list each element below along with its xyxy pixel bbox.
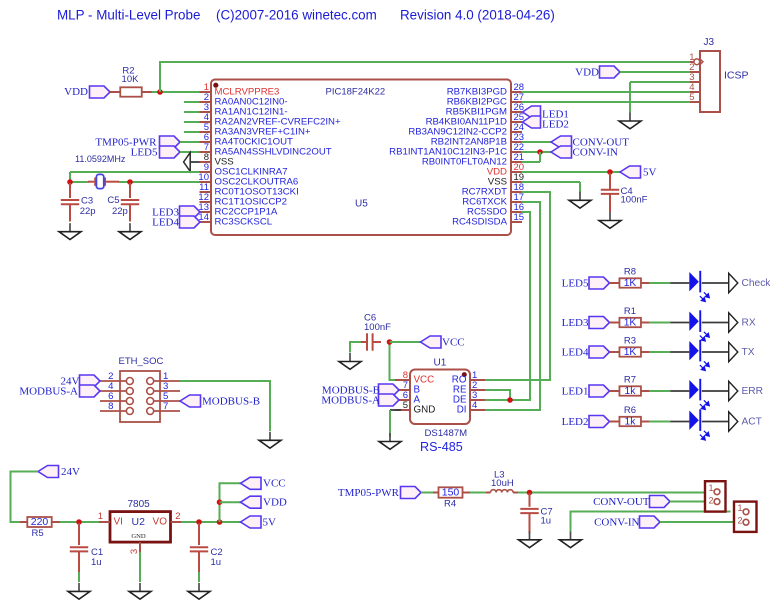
svg-text:LED4: LED4 — [152, 216, 179, 228]
svg-text:MODBUS-A: MODBUS-A — [19, 385, 78, 397]
wire VDD to J3 pin2 — [620, 71, 690, 73]
wire VDD branch — [220, 501, 241, 503]
wire J3 pin3 down — [629, 82, 631, 113]
connector CONV-IN header body — [734, 502, 757, 532]
svg-text:1k: 1k — [625, 416, 637, 427]
wire C5 top lead — [129, 183, 131, 198]
svg-text:10uH: 10uH — [491, 478, 514, 489]
svg-text:1: 1 — [737, 503, 742, 513]
flag LED1 at pin26 — [523, 106, 541, 118]
resistor R4 — [439, 487, 463, 497]
svg-text:100nF: 100nF — [364, 322, 391, 333]
flag MODBUS-A at ETH_SOC — [80, 385, 101, 397]
U5 pin 12 stub — [200, 201, 212, 203]
flag LED4 led row — [589, 346, 610, 358]
wire TMP05 to R4 — [421, 492, 433, 494]
wire R1 right lead — [641, 322, 650, 324]
svg-text:VCC: VCC — [263, 478, 286, 490]
U5 pin 5 stub — [200, 131, 212, 133]
IC U5 PIC18F24K22 body — [211, 80, 511, 236]
LED D-ERR cathode bar — [699, 379, 701, 401]
svg-text:R7: R7 — [624, 375, 636, 386]
capacitor C1 — [70, 547, 88, 551]
svg-text:1u: 1u — [541, 516, 552, 527]
wire U2 pin3 down — [139, 552, 141, 582]
wire CONV-OUT to header — [670, 501, 714, 503]
svg-text:MLP - Multi-Level Probe: MLP - Multi-Level Probe — [57, 7, 200, 22]
ETH_SOC pin 5 stub — [154, 400, 180, 402]
flag 5V — [241, 516, 262, 528]
ETH_SOC pin 6 circle — [126, 398, 133, 405]
wire U1 GND — [390, 409, 401, 411]
wire C6 to ground — [350, 342, 361, 353]
wire crystal left — [70, 181, 89, 183]
svg-text:7: 7 — [163, 401, 168, 412]
regulator U2 7805 body — [110, 512, 171, 542]
wire CONV ground net — [571, 512, 731, 532]
svg-text:R5: R5 — [32, 528, 44, 539]
J3 pin 2 stub — [690, 71, 700, 73]
U5 pin 18 stub — [511, 191, 522, 193]
wire R2 right lead — [142, 91, 152, 93]
flag CONV-OUT source — [650, 496, 671, 508]
offpage arrow ACT — [729, 412, 738, 431]
LED D-Check cathode bar — [699, 271, 701, 293]
svg-text:RX: RX — [742, 317, 756, 328]
CONV-OUT header pin1 circle — [714, 489, 720, 495]
wire stub pin 3 — [184, 111, 200, 113]
flag MODBUS-A at U1 — [379, 394, 400, 406]
wire L3 left lead — [486, 492, 491, 494]
svg-text:VO: VO — [153, 517, 168, 528]
IC U1 DS1487M body — [410, 370, 470, 425]
wire LED anode ERR — [670, 390, 689, 392]
flag LED1 led row — [589, 385, 610, 397]
svg-text:R4: R4 — [444, 499, 456, 510]
wire R5 right lead — [52, 521, 60, 523]
wire R6 to LED — [650, 421, 670, 423]
LED D-ERR triangle — [689, 380, 699, 399]
svg-text:3: 3 — [129, 549, 140, 554]
LED D-TX cathode bar — [699, 340, 701, 362]
wire stub pin 5 — [184, 131, 200, 133]
U1 pin 8 stub — [395, 379, 410, 381]
U5 pin 19 stub — [511, 181, 522, 183]
flag LED2 at pin25 — [523, 116, 541, 128]
ground C3 — [59, 223, 81, 239]
wire U1 GND down — [389, 410, 391, 437]
ETH_SOC pin 8 circle — [126, 408, 133, 415]
svg-text:CONV-OUT: CONV-OUT — [593, 496, 650, 508]
U5 pin 2 stub — [200, 101, 212, 103]
U1 pin 4 stub — [470, 409, 485, 411]
svg-text:PIC18F24K22: PIC18F24K22 — [326, 87, 386, 98]
wire L3 right lead — [513, 492, 518, 494]
svg-text:U5: U5 — [355, 199, 368, 210]
U5 pin 24 stub — [511, 131, 522, 133]
ETH_SOC pin 5 circle — [147, 398, 154, 405]
wire ETH pin1 to ground — [180, 381, 270, 431]
wire PGC pin27 to J3 pin5 — [522, 101, 691, 103]
node RE-DE junction — [507, 397, 513, 403]
wire VSS pin19 — [522, 181, 581, 183]
flag TMP05-PWR source — [401, 487, 422, 499]
capacitor C3 — [61, 200, 79, 204]
wire PGD pin28 to J3 pin4 — [522, 91, 691, 93]
svg-text:LED2: LED2 — [542, 118, 569, 130]
svg-text:8: 8 — [108, 401, 113, 412]
node XTAL1 — [67, 179, 73, 185]
wire R3 left lead — [610, 351, 620, 353]
node 5V branch — [217, 519, 223, 525]
svg-text:220: 220 — [31, 516, 49, 528]
LED D-RX arrows — [700, 332, 709, 341]
wire TMP05-PWR to pin6 — [180, 141, 200, 143]
flag LED5 led row — [589, 277, 610, 289]
U5 pin 6 stub — [200, 141, 212, 143]
wire OSC1 — [70, 171, 200, 173]
wire R1 left lead — [610, 322, 620, 324]
wire stub pin 4 — [184, 121, 200, 123]
wire LED anode Check — [670, 282, 689, 284]
wire VDD pin20 — [522, 171, 621, 173]
svg-text:R3: R3 — [624, 336, 636, 347]
wire R7 left lead — [610, 390, 620, 392]
svg-text:GND: GND — [414, 405, 436, 416]
J3 pin 1 stub — [690, 61, 700, 63]
wire L3 to header — [518, 492, 714, 494]
wire R5 to U2 — [60, 521, 99, 523]
U5 pin 9 stub — [200, 171, 212, 173]
LED D-ERR arrows — [700, 400, 709, 409]
wire VSS pin8 — [190, 161, 199, 163]
ground CONV — [560, 531, 582, 547]
LED D-ACT arrows — [700, 431, 709, 440]
svg-text:C5: C5 — [107, 195, 119, 206]
resistor R1 — [619, 318, 641, 327]
ground ICSP — [619, 113, 641, 129]
svg-text:GND: GND — [131, 533, 146, 540]
svg-text:4: 4 — [472, 400, 477, 411]
LED D-Check arrows — [700, 292, 709, 301]
svg-text:LED1: LED1 — [562, 385, 589, 397]
wire C1 bottom lead — [78, 552, 80, 573]
svg-text:24V: 24V — [61, 466, 80, 478]
connector CONV-OUT header body — [705, 481, 726, 511]
svg-text:ICSP: ICSP — [724, 70, 749, 82]
svg-text:RC3SCKSCL: RC3SCKSCL — [215, 217, 273, 228]
svg-text:R1: R1 — [624, 306, 636, 317]
wire R8 right lead — [641, 282, 650, 284]
svg-text:MODBUS-B: MODBUS-B — [202, 395, 260, 407]
U1 pin 5 stub — [395, 409, 410, 411]
LED D-Check triangle — [689, 272, 699, 291]
wire LED anode RX — [670, 322, 689, 324]
ground ETH_SOC — [259, 432, 281, 448]
wire RC6TXCK to DI — [485, 202, 540, 410]
svg-text:VDD: VDD — [64, 86, 88, 98]
svg-text:ACT: ACT — [742, 416, 762, 427]
wire R5 left lead — [20, 521, 27, 523]
flag 5V at pin20 — [620, 166, 641, 178]
wire R7 to LED — [650, 390, 670, 392]
svg-text:VI: VI — [114, 517, 123, 528]
wire C5 bottom lead — [129, 204, 131, 221]
ground C7 — [519, 531, 541, 547]
wire C3 bottom lead — [69, 204, 71, 221]
svg-text:1K: 1K — [624, 278, 637, 289]
U1 pin 3 stub — [470, 399, 485, 401]
U5 pin 20 stub — [511, 171, 522, 173]
wire LED cathode ACT — [702, 421, 729, 423]
wire C6 left lead — [361, 341, 367, 343]
svg-text:150: 150 — [442, 487, 460, 499]
U2 pin 1 stub — [99, 521, 110, 523]
node C2 junction — [196, 519, 202, 525]
U5 pin 10 stub — [200, 181, 212, 183]
svg-text:CONV-IN: CONV-IN — [573, 146, 618, 158]
svg-text:CONV-IN: CONV-IN — [594, 516, 639, 528]
ground C2 — [188, 583, 210, 599]
flag LED3 led row — [589, 317, 610, 329]
U5 pin 17 stub — [511, 201, 522, 203]
wire C2 ground — [198, 572, 200, 582]
U5 pin 25 stub — [511, 121, 522, 123]
flag 24V at regulator — [38, 466, 59, 478]
ground VSS arrow — [184, 153, 191, 172]
svg-text:15: 15 — [514, 212, 525, 223]
svg-text:R6: R6 — [624, 405, 636, 416]
LED D-TX arrows — [700, 361, 709, 370]
wire C1 ground — [78, 572, 80, 582]
ground C1 — [68, 583, 90, 599]
svg-text:1: 1 — [98, 511, 103, 522]
wire LED cathode RX — [702, 322, 729, 324]
wire C6 right lead — [373, 341, 381, 343]
svg-text:22p: 22p — [80, 206, 96, 217]
svg-text:1K: 1K — [624, 317, 637, 328]
wire C2 top lead — [198, 523, 200, 545]
svg-text:DI: DI — [457, 405, 467, 416]
wire R7 right lead — [641, 390, 650, 392]
flag VDD — [241, 496, 262, 508]
LED D-ACT cathode bar — [699, 409, 701, 431]
wire R1 to LED — [650, 322, 670, 324]
U5 pin 23 stub — [511, 141, 522, 143]
U5 pin-1 mark — [213, 83, 218, 88]
LED D-RX cathode bar — [699, 310, 701, 332]
wire VSS pin19 down — [579, 182, 581, 193]
CONV-OUT header pin2 circle — [714, 499, 720, 505]
U5 pin 7 stub — [200, 151, 212, 153]
svg-text:MODBUS-A: MODBUS-A — [321, 394, 380, 406]
svg-text:5V: 5V — [643, 166, 657, 178]
wire pin21 up — [539, 152, 541, 162]
ETH_SOC pin 8 stub — [100, 410, 126, 412]
wire CONV-IN to header — [660, 521, 743, 523]
svg-text:LED4: LED4 — [562, 346, 589, 358]
U5 pin 16 stub — [511, 211, 522, 213]
wire stub pin 2 — [184, 101, 200, 103]
node MCLR junction — [157, 89, 163, 95]
node VDD branch — [217, 499, 223, 505]
resistor R8 — [619, 278, 641, 287]
U5 pin 3 stub — [200, 111, 212, 113]
svg-text:VDD: VDD — [263, 497, 287, 509]
resistor R2 — [120, 87, 142, 96]
connector J3 body — [700, 51, 720, 112]
resistor R5 — [27, 517, 51, 527]
crystal Q1 plates — [88, 178, 119, 186]
ground C4 — [599, 212, 621, 228]
ground C5 — [119, 223, 141, 239]
wire R3 to LED — [650, 351, 670, 353]
wire RE join — [485, 390, 510, 400]
resistor R3 — [619, 347, 641, 356]
U5 pin 13 stub — [200, 211, 212, 213]
offpage arrow ERR — [729, 381, 738, 400]
ETH_SOC pin 4 stub — [100, 390, 126, 392]
U5 pin 4 stub — [200, 121, 212, 123]
CONV-IN header pin1 circle — [743, 509, 749, 515]
capacitor C4 — [601, 190, 619, 194]
J3 pin 4 stub — [690, 91, 700, 93]
svg-text:ETH_SOC: ETH_SOC — [119, 356, 164, 367]
wire LED5 to pin7 — [180, 151, 200, 153]
wire VCC branch — [220, 483, 241, 522]
svg-text:VCC: VCC — [442, 336, 465, 348]
svg-text:TMP05-PWR: TMP05-PWR — [338, 487, 400, 499]
flag MODBUS-B at U1 — [379, 384, 400, 396]
wire LED anode ACT — [670, 421, 689, 423]
wire VCC to flag — [390, 341, 421, 343]
flag CONV-IN source — [640, 516, 661, 528]
node CONV-IN junction — [537, 149, 543, 155]
wire C2 bottom lead — [198, 552, 200, 573]
svg-text:100nF: 100nF — [621, 194, 648, 205]
svg-text:RS-485: RS-485 — [420, 440, 463, 454]
svg-text:C3: C3 — [81, 196, 93, 207]
resistor R6 — [619, 417, 641, 426]
J3 pin 5 stub — [690, 101, 700, 103]
capacitor C2 — [190, 547, 208, 551]
svg-text:2: 2 — [708, 495, 713, 505]
U5 pin 15 stub — [511, 221, 522, 223]
CONV-IN header pin2 circle — [743, 519, 749, 525]
wire pin23 CONV-OUT — [522, 141, 552, 143]
flag LED4 at pin14 — [180, 216, 201, 228]
wire LED cathode TX — [702, 351, 729, 353]
svg-text:DS1487M: DS1487M — [425, 428, 468, 439]
svg-text:1u: 1u — [211, 557, 222, 568]
wire RC5SDO to DE — [485, 212, 530, 400]
ETH_SOC pin 6 stub — [100, 400, 126, 402]
svg-text:Revision 4.0 (2018-04-26): Revision 4.0 (2018-04-26) — [400, 7, 555, 22]
ETH_SOC pin 1 circle — [147, 378, 154, 385]
U5 pin 8 stub — [200, 161, 212, 163]
svg-text:R8: R8 — [624, 267, 636, 278]
wire 24V to R5 — [11, 472, 39, 523]
ETH_SOC pin 3 stub — [154, 390, 180, 392]
J3 pin1 marker — [694, 59, 703, 65]
wire pin21 — [522, 161, 541, 163]
wire LED cathode Check — [702, 282, 729, 284]
svg-text:(C)2007-2016 winetec.com: (C)2007-2016 winetec.com — [216, 7, 377, 22]
offpage arrow RX — [729, 313, 738, 332]
wire crystal right to pin10 — [119, 181, 200, 183]
ground U2 — [129, 583, 151, 599]
ETH_SOC pin 7 circle — [147, 408, 154, 415]
offpage arrow Check — [729, 273, 738, 292]
svg-text:ERR: ERR — [742, 386, 764, 397]
U5 pin 22 stub — [511, 151, 522, 153]
U5 pin 11 stub — [200, 191, 212, 193]
flag MODBUS-B at ETH_SOC — [180, 395, 201, 407]
offpage arrow TX — [729, 342, 738, 361]
ground U1 — [379, 433, 401, 449]
ETH_SOC pin 2 circle — [126, 378, 133, 385]
U2 pin 3 stub — [139, 542, 141, 552]
wire C1 top lead — [78, 523, 80, 545]
capacitor C5 — [121, 200, 139, 204]
U1 pin 6 stub — [395, 399, 410, 401]
wire R4 left lead — [433, 492, 439, 494]
flag LED2 led row — [589, 416, 610, 428]
flag VCC — [241, 477, 262, 489]
svg-text:1: 1 — [708, 483, 713, 493]
flag 24V at ETH_SOC — [80, 375, 101, 387]
U1 pin 2 stub — [470, 389, 485, 391]
svg-text:2: 2 — [175, 511, 180, 522]
wire R3 right lead — [641, 351, 650, 353]
svg-text:LED5: LED5 — [131, 146, 158, 158]
wire RC7RXDT to RO — [485, 192, 550, 380]
flag TMP05-PWR — [160, 136, 181, 148]
wire LED cathode ERR — [702, 390, 729, 392]
wire R4 to L3 — [470, 492, 486, 494]
svg-text:LED2: LED2 — [562, 416, 589, 428]
svg-text:22p: 22p — [112, 206, 128, 217]
ground pin19 — [569, 192, 591, 208]
wire U1 VCC — [390, 342, 396, 380]
wire C7 bottom lead — [529, 513, 531, 533]
wire pin22 CONV-IN — [522, 151, 552, 153]
svg-text:1k: 1k — [625, 386, 637, 397]
U2 pin 2 stub — [171, 521, 182, 523]
svg-text:2: 2 — [737, 516, 742, 526]
wire C3 top lead — [69, 183, 71, 198]
capacitor C7 — [520, 509, 538, 513]
svg-text:RC4SDISDA: RC4SDISDA — [452, 217, 508, 228]
wire C4 top lead — [609, 173, 611, 189]
ETH_SOC pin 2 stub — [100, 380, 126, 382]
node C7 junction — [527, 490, 533, 496]
LED D-RX triangle — [689, 312, 699, 331]
resistor R7 — [619, 386, 641, 395]
flag VDD at ICSP — [600, 66, 621, 78]
svg-text:U2: U2 — [132, 516, 146, 528]
wire VO net — [181, 521, 241, 523]
svg-text:7805: 7805 — [128, 499, 151, 510]
node XTAL2 — [127, 179, 133, 185]
U5 pin 27 stub — [511, 101, 522, 103]
ground C6 — [339, 353, 361, 369]
wire C7 top lead — [529, 493, 531, 507]
svg-text:11.0592MHz: 11.0592MHz — [75, 154, 126, 164]
LED D-ACT triangle — [689, 411, 699, 430]
svg-text:LED3: LED3 — [562, 317, 589, 329]
flag LED3 at pin13 — [180, 206, 201, 218]
